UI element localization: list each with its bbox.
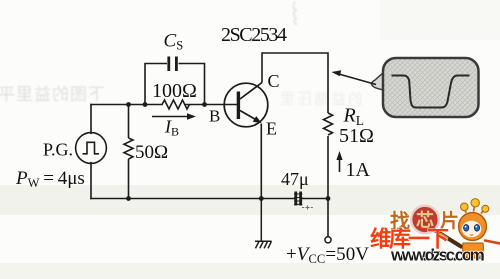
svg-text:下图的益里平: 下图的益里平: [0, 85, 105, 104]
mascot head: [459, 213, 487, 241]
resistor RL: [324, 113, 333, 135]
wire: bottom rail right of 47u capacitor: [302, 198, 329, 200]
capacitor CS plates: [169, 57, 177, 72]
resistor 100 ohm: [162, 100, 190, 109]
mascot feet: [463, 256, 482, 259]
svg-text:1A: 1A: [346, 159, 371, 181]
callout arrow to collector wire: [332, 70, 377, 84]
node: emitter ground junction: [259, 196, 264, 201]
node: 50 ohm top junction: [126, 102, 131, 107]
wire: RL bottom to junction: [327, 136, 329, 199]
current arrow IB: [152, 113, 196, 119]
svg-text:50Ω: 50Ω: [135, 142, 168, 163]
wire: bottom rail left of 47u capacitor: [91, 198, 295, 200]
watermark magnifier lens with xin character: [411, 206, 439, 234]
svg-text:C: C: [268, 71, 280, 91]
resistor 50 ohm: [124, 105, 133, 199]
wire: 100 ohm resistor right side to transistor base: [186, 104, 237, 106]
pulse generator P.G.: [76, 133, 107, 164]
capacitor 47u plates: [294, 192, 302, 206]
wire: top rail from left corner to 100 ohm resistor: [91, 104, 162, 106]
svg-text:PW = 4μs: PW = 4μs: [15, 168, 85, 190]
svg-text:P.G.: P.G.: [43, 140, 73, 160]
svg-text:+VCC=50V: +VCC=50V: [286, 244, 369, 266]
svg-text:51Ω: 51Ω: [339, 125, 374, 147]
polarity plus mark: [302, 206, 313, 210]
ghost text artifact left: [0, 85, 105, 104]
transistor Q1 2SC2534: [224, 83, 268, 127]
wire: left vertical from top rail to P.G.: [90, 105, 92, 134]
svg-text:2SC2534: 2SC2534: [221, 24, 287, 46]
svg-text:E: E: [266, 119, 277, 139]
svg-text:B: B: [209, 107, 220, 126]
mascot antenna balls: [461, 199, 489, 213]
mascot face: [462, 221, 482, 237]
mascot body: [463, 243, 484, 258]
mascot arm with pen: [485, 241, 500, 244]
mascot antennae: [465, 206, 484, 214]
node: 50 ohm bottom junction: [126, 196, 131, 201]
capacitor CS loop wires: [145, 64, 205, 105]
svg-text:www.dzsc.com: www.dzsc.com: [390, 246, 485, 265]
mascot mouth: [470, 234, 473, 237]
svg-text:100Ω: 100Ω: [152, 80, 197, 102]
ghost squiggle artifact top: [293, 2, 297, 25]
waveform callout box: [372, 58, 479, 117]
node: CS left junction: [143, 102, 148, 107]
magnifier handle: [435, 230, 462, 247]
waveform trace: [392, 76, 470, 108]
current arrow 1A: [336, 151, 342, 172]
node: CS right junction: [202, 102, 207, 107]
Vcc terminal: [325, 199, 331, 243]
ground: [255, 199, 272, 249]
ghost text artifact middle: [278, 91, 363, 108]
mascot eyes: [464, 225, 480, 232]
wire: collector up and top rail to RL: [262, 53, 328, 113]
node: RL bottom junction: [326, 196, 331, 201]
svg-text:47μ: 47μ: [281, 169, 309, 189]
wire: P.G. to bottom rail: [90, 163, 92, 199]
wire: emitter down to bottom rail: [260, 124, 262, 199]
